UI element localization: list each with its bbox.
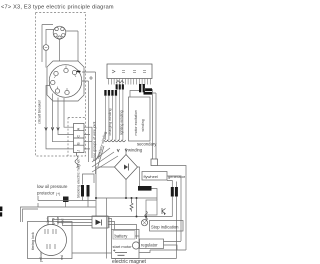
bridge rectifier VD1 [115,155,138,180]
wire lamp to connector J2 [45,50,47,67]
wire J1 bottom down [59,39,61,61]
generator terminal bars [171,187,174,197]
junction arrows above rectifier [117,149,127,152]
svg-text:motor excitation: motor excitation [134,110,138,135]
svg-text:C: C [77,135,81,138]
svg-text:(+): (+) [56,192,60,196]
ventilator winding label [96,131,107,159]
vertical pair to motor box [23,209,39,222]
svg-text:grey: grey [51,218,55,225]
svg-text:battery: battery [115,233,129,238]
stop indication box [150,221,184,232]
right bus wires [172,197,176,259]
svg-text:<7> X3, E3 type electric princ: <7> X3, E3 type electric principle diagr… [1,5,114,11]
label secondary winding [128,142,157,153]
svg-text:A: A [77,127,81,130]
resistor R1 [130,198,133,212]
wire labels bottom [39,252,64,262]
VD1 wires [96,148,140,198]
start motor label [113,244,133,249]
wire left branch [42,25,53,63]
regulator box [140,239,164,249]
timing lock box [28,222,73,259]
J1 pins [54,27,65,39]
svg-text:secondary: secondary [137,142,157,147]
inner dashed partition [68,118,86,157]
battery group box [112,230,140,259]
TB1 comb pins [109,79,151,85]
X1 letters [77,127,81,152]
VD2 input wires [86,220,92,226]
VD2 output wires [108,219,137,240]
wire from J1 left to lamp [46,30,53,45]
motor M1 circle [132,242,139,249]
wires below bars [83,197,89,208]
label low oil pressure protector [37,184,68,196]
TB1 inner marks [112,70,146,73]
contact block K1 [63,197,69,203]
J2 pins [51,68,77,94]
transistor V1 [162,208,166,214]
title text [1,5,114,11]
terminal bar P2 [87,185,90,197]
battery label box [113,231,135,240]
svg-text:red: red [60,255,64,260]
wire J1 right down [66,31,78,61]
wire J2 right pin to bus [82,72,96,174]
svg-text:electric magnet: electric magnet [112,259,147,264]
bracket to LP bars [83,174,95,185]
regulator wires [135,236,181,250]
lamp HL1 [43,45,49,51]
vertical label circuit breaker [38,99,42,124]
svg-text:timing lock: timing lock [31,232,35,250]
coil under X1 [75,153,78,168]
fuse pair C [139,84,141,92]
lamp stop HL2 [141,220,147,226]
stop circuit frame [146,200,157,215]
connector bars right pair [144,88,153,94]
connector J1 small [53,26,66,39]
main bus wires [96,198,172,217]
svg-text:circuit breaker: circuit breaker [38,99,42,124]
svg-text:Stop indication: Stop indication [151,224,179,229]
rectifier module VD2 [92,216,108,228]
VD1 diode symbol [124,165,128,170]
J2 pin tails [54,66,76,91]
winding wires down [105,90,123,141]
svg-text:lighting winding: lighting winding [120,110,124,135]
fuse bars row B [116,84,118,89]
label lighting winding [120,110,124,135]
wires TB1 to excitation box [130,88,156,97]
svg-text:ventilator winding: ventilator winding [96,131,107,159]
label charging winding [108,109,112,136]
svg-text:charging winding: charging winding [108,109,112,136]
svg-text:three groups of wire joint: three groups of wire joint [93,122,97,161]
diode block bar [138,186,152,191]
svg-text:regulator: regulator [141,242,158,247]
winding coil scallops [104,140,126,142]
label timing lock [31,232,35,250]
secondary winding drop wires [153,90,157,160]
connector J2 housing [47,61,84,101]
timer wires up [48,217,87,226]
svg-text:B: B [77,142,81,145]
long horizontal wires low area [21,201,96,223]
svg-text:protector: protector [37,191,55,196]
wires X1 right exits diagonals [84,127,92,158]
svg-text:flywheel: flywheel [144,174,159,179]
zigzag mark [116,81,124,84]
wire J2 right lower pin [82,81,89,162]
svg-text:winding: winding [128,148,143,153]
terminal block TB1 [107,64,152,79]
bottom bus [72,250,186,259]
wire labels top [46,216,65,225]
label electric magnet [112,259,147,264]
diagonal feeders [96,146,104,166]
svg-text:low oil pressure: low oil pressure [37,184,68,189]
svg-text:black: black [46,217,50,225]
secondary winding element [151,159,158,166]
diagonal wires to windings [92,148,118,172]
label three groups of wire [93,122,97,161]
battery symbol GB [115,253,127,256]
wire J2 left exit down [46,86,74,149]
svg-text:start motor: start motor [113,244,133,249]
flywheel generator label box [142,172,167,181]
timer contacts [45,229,56,249]
scan artifact marks [0,207,2,212]
motor excitation winding box [129,97,151,141]
bars top wires [167,181,176,188]
vertical label blocking electric magnet [77,159,81,198]
coil L1 [145,211,148,221]
arrow marks on wires [45,127,60,130]
svg-text:generator: generator [168,174,186,179]
fuse bars row A [104,84,145,96]
dashed enclosure control handle box [36,13,86,157]
terminal bar P1 [81,185,84,197]
svg-text:yellow: yellow [39,252,43,262]
wire bundle from J2 bottom [53,94,74,142]
svg-text:white: white [56,216,60,224]
plus mark node [89,76,93,80]
svg-text:winding: winding [141,119,145,131]
timer motor circle [36,225,67,256]
connector J2 face [49,65,82,98]
svg-text:J: J [77,150,81,152]
terminal strip X1 [74,124,85,153]
junction dots [95,197,147,218]
J2 arrow mark [77,71,81,73]
svg-text:blocking electric magnet: blocking electric magnet [77,159,81,198]
